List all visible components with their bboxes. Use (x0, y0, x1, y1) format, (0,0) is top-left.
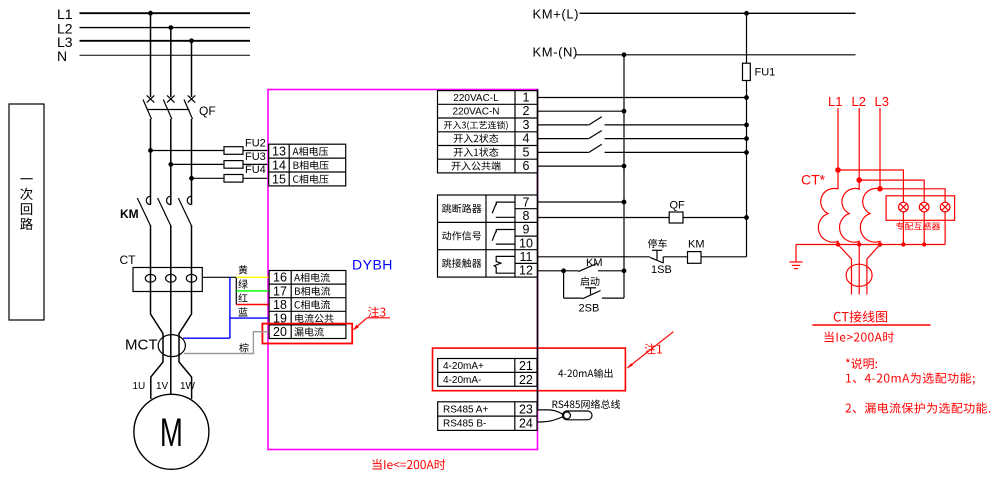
wire L1 drop (red) (837, 108, 839, 189)
svg-text:5: 5 (523, 145, 530, 159)
DYBH enclosure (magenta) (268, 90, 538, 450)
terminal strip 1-6 (438, 91, 538, 173)
bottom bus (red) (796, 244, 945, 246)
pin 6 (452, 159, 530, 173)
note *说明: (846, 358, 877, 369)
svg-text:L2: L2 (852, 94, 866, 109)
bus nodes (red) (836, 242, 927, 246)
svg-text:L1: L1 (828, 94, 842, 109)
note 3 label (368, 306, 385, 317)
analog block 21-22 (438, 359, 537, 387)
wire CT-motor pole 3 (179, 268, 192, 400)
svg-text:FU1: FU1 (755, 67, 776, 79)
pin 18 (273, 298, 330, 312)
wire into MCT mid (858, 245, 860, 295)
wire blue to 19 and MCT (183, 277, 269, 338)
svg-text:12: 12 (519, 264, 533, 278)
pin 19 (273, 312, 334, 326)
QF linkage bar (147, 109, 190, 111)
wire L2 drop (170, 28, 172, 97)
svg-text:1SB: 1SB (651, 264, 672, 276)
wire CT-motor pole 1 (151, 268, 164, 400)
bus N (57, 48, 250, 64)
svg-text:24: 24 (519, 417, 533, 431)
svg-text:10: 10 (519, 236, 533, 250)
svg-text:4: 4 (523, 132, 530, 146)
fuse FU4 (224, 164, 266, 182)
svg-text:22: 22 (519, 373, 533, 387)
svg-text:1W: 1W (180, 381, 196, 392)
svg-text:220VAC-L: 220VAC-L (453, 93, 499, 104)
wire into MCT left (838, 245, 852, 295)
fuse FU2 (224, 137, 266, 154)
bus L1 (57, 6, 250, 22)
wire KM-CT pole 1 (150, 225, 152, 268)
wire red to 18 (236, 304, 268, 306)
svg-text:3: 3 (523, 118, 530, 132)
svg-text:17: 17 (273, 284, 287, 298)
pin 2 220VAC-N (452, 104, 529, 118)
label RS485 bus (553, 399, 621, 408)
switch input 3 (538, 117, 749, 127)
contact 11-12 (494, 256, 515, 273)
wire pin11 (538, 256, 650, 258)
svg-text:CT*: CT* (801, 172, 826, 188)
transducer circle 2 (919, 202, 929, 212)
wire KM coil to L bus (701, 256, 747, 258)
ground (790, 245, 803, 269)
switch input 1 (538, 144, 749, 154)
pin 14 (272, 158, 329, 172)
svg-text:M: M (160, 411, 183, 455)
label 当Ie>200A时 (824, 331, 893, 342)
label 跳接触器 (442, 258, 481, 267)
note 1 label (645, 343, 662, 354)
transducer circle 3 (940, 202, 950, 212)
wire L bus (746, 81, 748, 257)
label 黄 (239, 265, 248, 274)
node L1 (red) (836, 168, 840, 172)
wire L3 drop (red) (879, 108, 881, 190)
CT ellipse 3 (186, 274, 196, 282)
label 绿 (238, 279, 247, 288)
bus L3 (57, 34, 250, 50)
label CT接线图 (834, 311, 887, 323)
svg-text:KM: KM (586, 257, 603, 269)
pushbutton 1SB stop (648, 239, 672, 276)
RS485 block 23-24 (438, 402, 537, 431)
svg-text:KM: KM (120, 207, 139, 221)
wire L2 drop (red) (858, 108, 860, 190)
svg-text:QF: QF (199, 104, 216, 118)
svg-text:4-20mA+: 4-20mA+ (443, 361, 484, 372)
note 3 leader (353, 318, 391, 331)
note Ie<=200A (372, 459, 445, 470)
contactor KM pole 3 (178, 196, 191, 226)
coil KM (688, 238, 705, 263)
breaker QF pole 3 (184, 95, 195, 119)
wire N bus (623, 55, 625, 298)
svg-text:20: 20 (273, 325, 287, 339)
transducer box (886, 196, 955, 221)
contact 9-10 (492, 230, 515, 245)
label 专配互感器 (896, 222, 940, 230)
node FU4 tap (190, 177, 194, 181)
wire tap to 13 (151, 150, 269, 152)
svg-text:KM-(N): KM-(N) (533, 45, 578, 60)
svg-text:220VAC-N: 220VAC-N (452, 107, 499, 118)
note 3 red box (262, 324, 352, 344)
note 2 line (845, 402, 990, 413)
pin 1 220VAC-L (453, 91, 529, 105)
svg-text:1V: 1V (156, 381, 169, 392)
contact KM aux (579, 257, 626, 272)
pin 20 (273, 325, 324, 339)
svg-text:16: 16 (273, 271, 287, 285)
wire pin6 to N bus (538, 164, 626, 168)
wire KM-CT pole 2 (170, 225, 172, 268)
MCT ellipse (125, 335, 185, 357)
pin 23 RS485 A+ (443, 402, 533, 416)
svg-text:7: 7 (523, 195, 530, 209)
wire L2 to transducer 2 (859, 180, 924, 244)
wire pin2 to N bus (538, 109, 626, 113)
node L2 (red) (857, 178, 861, 182)
RS485 cable symbol (538, 410, 593, 422)
svg-text:L3: L3 (875, 94, 889, 109)
QF aux contact (538, 200, 749, 224)
pin 17 (273, 284, 330, 298)
fuse FU1 (743, 13, 776, 80)
breaker QF pole 1 (143, 95, 154, 119)
label 棕 (239, 343, 248, 352)
CT coil 3 (860, 188, 880, 244)
MCT ellipse (red) (846, 264, 872, 286)
terminal block 13-15 (269, 144, 346, 186)
contactor KM pole 2 (158, 196, 171, 226)
node L2 tap (169, 26, 173, 30)
wire QF-KM pole 3 (191, 119, 193, 205)
svg-text:FU2: FU2 (245, 137, 266, 149)
svg-text:23: 23 (519, 402, 533, 416)
wire tap to 15 (192, 177, 269, 179)
CT coil 1 (818, 188, 838, 244)
CT ellipse 2 (166, 274, 176, 282)
label 红 (238, 293, 247, 302)
label 4-20mA output (558, 369, 612, 378)
svg-text:1: 1 (523, 91, 530, 105)
relay output block 7-12 (438, 195, 538, 277)
wire L1 to transducer 1 (838, 170, 903, 245)
pin 16 (273, 271, 330, 285)
wire pin12 (538, 269, 579, 273)
wire KM-(N) (576, 54, 856, 56)
pin 15 (272, 172, 328, 186)
CT coil 2 (840, 188, 860, 244)
primary circuit box 一次回路 (9, 104, 44, 320)
svg-text:DYBH: DYBH (352, 257, 393, 273)
terminal block 16-20 (269, 271, 346, 339)
pin 5 (454, 145, 530, 159)
pin 4 (454, 132, 530, 146)
svg-text:13: 13 (272, 145, 286, 159)
contact 7-8 (492, 202, 515, 217)
svg-text:2SB: 2SB (579, 303, 600, 315)
breaker QF pole 2 (163, 95, 174, 119)
node FU2 tap (149, 149, 153, 153)
wire CT-motor pole 2 (170, 268, 172, 395)
svg-text:4-20mA-: 4-20mA- (443, 375, 481, 386)
wire gray MCT to 20 (184, 332, 269, 354)
wire tap to 14 (171, 163, 269, 165)
wire green to 17 (236, 290, 268, 292)
motor M (134, 394, 209, 469)
wire pin7 to N bus (538, 200, 626, 204)
svg-text:11: 11 (520, 250, 533, 264)
svg-text:14: 14 (272, 158, 286, 172)
wire KM+(L) (580, 12, 856, 14)
wire pin1 to L bus (538, 96, 749, 100)
note 1 red box (433, 348, 626, 391)
wire 1SB-KM (663, 256, 687, 258)
svg-text:8: 8 (523, 209, 530, 223)
label 跳断路器 (442, 204, 481, 213)
wire L3 to transducer 3 (880, 189, 945, 245)
node FU3 tap (169, 163, 173, 167)
wire QF-KM pole 1 (150, 119, 152, 205)
svg-text:RS485 A+: RS485 A+ (443, 404, 488, 415)
svg-text:MCT: MCT (125, 337, 158, 354)
svg-text:QF: QF (670, 200, 686, 212)
svg-text:18: 18 (273, 298, 287, 312)
node L3 tap (190, 39, 194, 43)
wire KM-CT pole 3 (191, 225, 193, 268)
fuse FU3 (224, 151, 266, 168)
svg-text:15: 15 (272, 172, 286, 186)
node L3 (red) (878, 187, 882, 191)
node KM- bus (622, 53, 626, 57)
CT ellipse 1 (145, 274, 155, 282)
svg-text:9: 9 (523, 223, 530, 237)
wire QF-KM pole 2 (170, 119, 172, 205)
wire into MCT right (867, 245, 880, 295)
note 1 line (846, 372, 975, 384)
pin 3 (444, 118, 530, 132)
svg-text:N: N (57, 48, 67, 64)
switch input 2 (538, 131, 749, 141)
terminal strip right edge line (537, 90, 539, 410)
node L1 tap (149, 11, 153, 15)
svg-text:1U: 1U (133, 381, 146, 392)
svg-text:FU3: FU3 (245, 151, 266, 163)
svg-text:2: 2 (523, 104, 530, 118)
CT box (120, 253, 203, 292)
wire L1 drop (150, 13, 152, 97)
pin 21 4-20mA+ (443, 359, 533, 373)
svg-text:CT: CT (120, 253, 137, 267)
svg-text:KM: KM (688, 238, 705, 250)
transducer circle 1 (899, 202, 909, 212)
svg-text:6: 6 (523, 159, 530, 173)
node KM+ bus (745, 12, 749, 16)
wire yellow to 16 (236, 276, 268, 278)
svg-text:RS485 B-: RS485 B- (443, 419, 486, 430)
bus L2 (57, 20, 250, 36)
label 动作信号 (442, 231, 481, 240)
pin 22 4-20mA- (443, 373, 533, 387)
contactor KM pole 1 (137, 196, 150, 226)
pin 24 RS485 B- (443, 417, 533, 431)
note 1 leader (627, 332, 674, 369)
wire L3 drop (191, 41, 193, 97)
svg-text:21: 21 (519, 359, 533, 373)
svg-text:FU4: FU4 (245, 164, 266, 176)
wire CT secondary (black) (202, 277, 236, 304)
underline (812, 324, 930, 326)
svg-text:KM+(L): KM+(L) (533, 7, 580, 22)
pushbutton 2SB start (564, 271, 624, 315)
pin 13 (272, 145, 328, 159)
label 蓝 (238, 307, 247, 316)
